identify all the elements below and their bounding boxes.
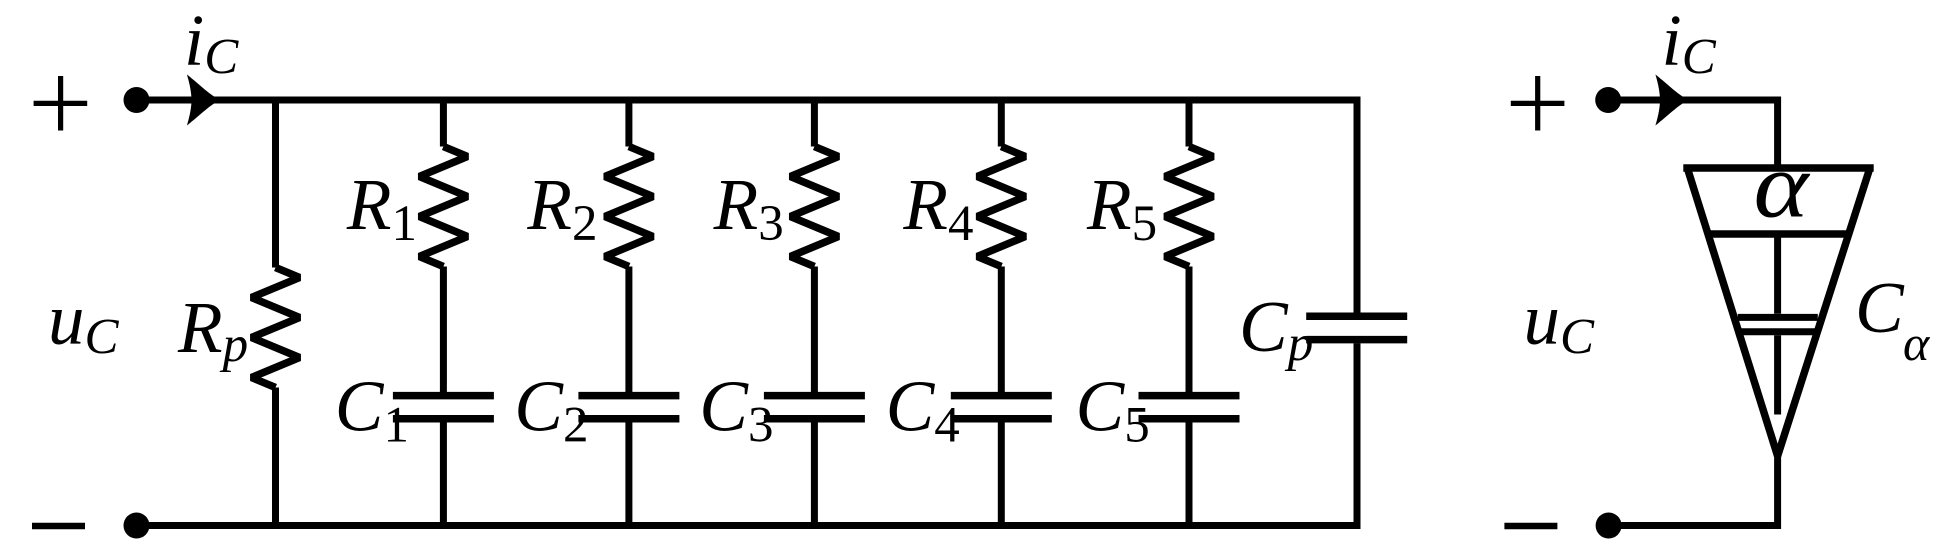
svg-text:α: α xyxy=(1903,315,1931,371)
wire C5 lower lead xyxy=(1186,422,1193,529)
svg-text:R5: R5 xyxy=(1086,164,1157,252)
fractional capacitor Ca triangle right side xyxy=(1778,168,1870,456)
capacitor C2 bottom plate xyxy=(578,415,679,423)
fractional capacitor Ca triangle top bar xyxy=(1683,164,1873,172)
capacitor Ca inner bottom plate xyxy=(1736,328,1819,335)
svg-text:uC: uC xyxy=(1524,279,1596,366)
wire R3-C3 middle lead xyxy=(811,267,818,393)
capacitor C1 top plate xyxy=(393,392,494,400)
capacitor C4 top plate xyxy=(951,392,1052,400)
wire R1 upper lead xyxy=(440,97,447,147)
fractional capacitor Ca triangle left side xyxy=(1687,168,1777,456)
wire C1 lower lead xyxy=(440,422,447,529)
current arrow iC (left) xyxy=(187,75,221,126)
capacitor C1 bottom plate xyxy=(393,415,494,423)
svg-text:C3: C3 xyxy=(699,366,773,454)
capacitor C5 bottom plate xyxy=(1139,415,1240,423)
capacitor Ca inner top plate xyxy=(1738,314,1818,321)
fractional capacitor Ca alpha-box bottom bar xyxy=(1706,230,1852,238)
resistor R4 xyxy=(977,147,1025,267)
wire R3 upper lead xyxy=(811,97,818,147)
svg-text:C: C xyxy=(1855,267,1905,348)
wire Rp upper lead xyxy=(272,97,279,268)
wire R5 upper lead xyxy=(1186,97,1193,147)
resistor R3 xyxy=(790,147,838,267)
svg-text:C4: C4 xyxy=(886,366,960,454)
wire C4 lower lead xyxy=(998,422,1005,529)
svg-text:iC: iC xyxy=(1662,0,1717,86)
capacitor C3 bottom plate xyxy=(764,415,865,423)
wire bottom lead (right circuit) xyxy=(1609,452,1778,526)
wire R2 upper lead xyxy=(625,97,632,147)
wire top rail with right corner down to Cp xyxy=(137,100,1358,314)
svg-text:C2: C2 xyxy=(514,366,588,454)
capacitor C3 top plate xyxy=(764,392,865,400)
wire Ca inner lower lead xyxy=(1774,335,1781,414)
resistor R2 xyxy=(605,147,653,267)
wire R1-C1 middle lead xyxy=(440,267,447,393)
wire R4 upper lead xyxy=(998,97,1005,147)
node dot bottom-left terminal xyxy=(124,513,150,539)
svg-text:C1: C1 xyxy=(335,366,409,454)
current arrow iC (right) xyxy=(1655,75,1689,126)
wire C3 lower lead xyxy=(811,422,818,529)
svg-text:R3: R3 xyxy=(713,164,784,252)
minus terminal (right circuit) xyxy=(1504,523,1557,530)
capacitor Cp top plate xyxy=(1306,313,1407,321)
svg-text:R4: R4 xyxy=(902,164,973,252)
svg-text:Rp: Rp xyxy=(177,287,248,373)
resistor Rp xyxy=(252,268,300,388)
wire Ca inner upper lead xyxy=(1774,234,1781,314)
node dot top terminal (right circuit) xyxy=(1595,87,1621,113)
wire Rp lower lead xyxy=(272,388,279,530)
wire R2-C2 middle lead xyxy=(625,267,632,393)
wire bottom rail with right corner up to Cp xyxy=(137,343,1358,525)
svg-text:Cp: Cp xyxy=(1239,286,1313,372)
capacitor C2 top plate xyxy=(578,392,679,400)
svg-text:R2: R2 xyxy=(526,164,597,252)
svg-text:iC: iC xyxy=(184,0,239,86)
resistor R1 xyxy=(419,147,467,267)
svg-text:uC: uC xyxy=(48,279,120,366)
plus terminal (left circuit) xyxy=(34,76,88,131)
wire R5-C5 middle lead xyxy=(1186,267,1193,393)
capacitor C5 top plate xyxy=(1139,392,1240,400)
capacitor C4 bottom plate xyxy=(951,415,1052,423)
capacitor Cp bottom plate xyxy=(1306,336,1407,344)
minus terminal (left circuit) xyxy=(32,523,85,530)
svg-text:R1: R1 xyxy=(346,164,417,252)
resistor R5 xyxy=(1165,147,1213,267)
svg-text:C5: C5 xyxy=(1076,366,1150,454)
wire C2 lower lead xyxy=(625,422,632,529)
wire top lead (right circuit) xyxy=(1608,100,1777,165)
wire R4-C4 middle lead xyxy=(998,267,1005,393)
svg-text:α: α xyxy=(1754,135,1811,238)
plus terminal (right circuit) xyxy=(1511,76,1565,131)
node dot bottom terminal (right circuit) xyxy=(1596,513,1622,539)
node dot top-left terminal xyxy=(124,87,150,113)
